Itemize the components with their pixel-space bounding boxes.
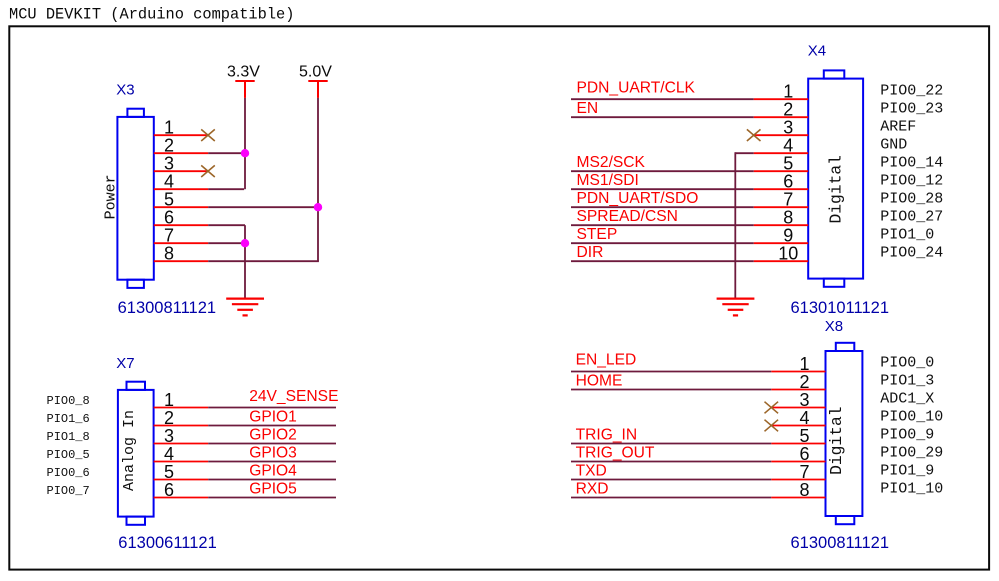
X3 pin 4 stub <box>154 188 208 190</box>
no-connect X8 pin 3 <box>765 402 779 414</box>
X8 pin 4 stub <box>771 425 825 427</box>
wire X3 pin 2 to 3.3V <box>208 152 245 154</box>
wire net 24V_SENSE <box>208 407 336 409</box>
X4 pin 4 stub <box>754 152 809 154</box>
svg-text:Digital: Digital <box>826 155 845 223</box>
svg-text:7: 7 <box>799 462 809 482</box>
X4 pin 3 stub <box>754 134 809 136</box>
svg-text:PIO0_23: PIO0_23 <box>880 100 943 117</box>
svg-text:PIO1_9: PIO1_9 <box>880 463 934 480</box>
svg-text:GPIO3: GPIO3 <box>249 445 297 462</box>
svg-text:PIO0_8: PIO0_8 <box>47 394 90 408</box>
svg-text:61301011121: 61301011121 <box>791 299 890 317</box>
X8 pin 5 stub <box>771 443 825 445</box>
wire net DIR <box>571 260 754 262</box>
wire net STEP <box>571 242 754 244</box>
wire net GPIO5 <box>208 497 336 499</box>
svg-text:4: 4 <box>799 408 809 428</box>
svg-text:3: 3 <box>783 118 793 138</box>
svg-text:3: 3 <box>799 390 809 410</box>
svg-text:PDN_UART/CLK: PDN_UART/CLK <box>577 79 696 96</box>
svg-text:PIO0_29: PIO0_29 <box>880 445 943 462</box>
svg-text:PIO0_12: PIO0_12 <box>880 172 943 189</box>
X3 pin 1 stub <box>154 134 208 136</box>
svg-text:PIO1_10: PIO1_10 <box>880 481 943 498</box>
svg-text:PIO0_5: PIO0_5 <box>47 448 90 462</box>
X4 pin 2 stub <box>754 116 809 118</box>
svg-text:1: 1 <box>783 82 793 102</box>
wire GND vertical left <box>244 225 246 297</box>
svg-text:GPIO2: GPIO2 <box>249 427 297 444</box>
wire net MS1/SDI <box>571 188 754 190</box>
power flag 3.3V <box>235 81 254 98</box>
X8 pin 6 stub <box>771 461 825 463</box>
svg-text:MS2/SCK: MS2/SCK <box>577 154 646 171</box>
wire net GPIO2 <box>208 443 336 445</box>
X3 pin 7 stub <box>154 242 208 244</box>
svg-text:PIO0_0: PIO0_0 <box>880 355 934 372</box>
svg-text:6: 6 <box>799 444 809 464</box>
svg-text:5: 5 <box>164 190 174 210</box>
svg-text:1: 1 <box>164 390 174 410</box>
svg-text:TRIG_IN: TRIG_IN <box>576 427 638 444</box>
svg-text:5.0V: 5.0V <box>299 64 332 81</box>
svg-text:2: 2 <box>799 372 809 392</box>
svg-text:10: 10 <box>778 244 798 264</box>
svg-text:3: 3 <box>164 154 174 174</box>
svg-text:3: 3 <box>164 426 174 446</box>
svg-text:2: 2 <box>164 408 174 428</box>
svg-text:7: 7 <box>164 226 174 246</box>
svg-text:HOME: HOME <box>576 373 623 390</box>
svg-text:PIO0_6: PIO0_6 <box>47 466 90 480</box>
ground symbol left <box>226 299 264 316</box>
svg-text:Digital: Digital <box>827 406 846 474</box>
no-connect X3 pin 1 <box>201 129 215 141</box>
svg-text:GPIO4: GPIO4 <box>249 463 297 480</box>
svg-text:PDN_UART/SDO: PDN_UART/SDO <box>577 190 699 207</box>
svg-text:6: 6 <box>164 480 174 500</box>
svg-text:61300811121: 61300811121 <box>118 299 217 317</box>
X7 pin 6 stub <box>154 497 209 499</box>
no-connect X4 pin 3 <box>747 129 761 141</box>
wire 5.0V to X3 pin 8 <box>208 260 319 262</box>
svg-text:8: 8 <box>799 480 809 500</box>
X4 pin 9 stub <box>754 242 809 244</box>
svg-text:61300811121: 61300811121 <box>791 534 890 552</box>
X4 pin 8 stub <box>754 224 809 226</box>
svg-text:TXD: TXD <box>576 463 607 480</box>
svg-text:STEP: STEP <box>577 226 618 243</box>
svg-text:PIO0_22: PIO0_22 <box>880 82 943 99</box>
wire net MS2/SCK <box>571 170 754 172</box>
X4 pin 6 stub <box>754 188 809 190</box>
svg-text:X3: X3 <box>116 82 134 99</box>
svg-text:PIO0_7: PIO0_7 <box>47 484 90 498</box>
no-connect X8 pin 4 <box>765 420 779 432</box>
svg-text:5: 5 <box>783 154 793 174</box>
svg-text:8: 8 <box>164 244 174 264</box>
svg-text:PIO1_0: PIO1_0 <box>880 226 934 243</box>
wire net GPIO1 <box>208 425 336 427</box>
wire net EN_LED <box>571 371 771 373</box>
svg-text:1: 1 <box>799 354 809 374</box>
svg-text:MCU DEVKIT (Arduino compatible: MCU DEVKIT (Arduino compatible) <box>9 6 294 24</box>
svg-text:GPIO1: GPIO1 <box>249 409 297 426</box>
svg-text:3.3V: 3.3V <box>227 64 260 81</box>
X4 pin 10 stub <box>754 260 809 262</box>
svg-text:DIR: DIR <box>577 244 604 261</box>
svg-text:4: 4 <box>783 136 793 156</box>
X3 pin 2 stub <box>154 152 208 154</box>
wire net RXD <box>571 497 771 499</box>
svg-text:PIO0_28: PIO0_28 <box>880 190 943 207</box>
wire X4 pin 4 to GND <box>735 152 753 154</box>
X7 pin 1 stub <box>154 407 209 409</box>
svg-text:PIO0_9: PIO0_9 <box>880 427 934 444</box>
svg-text:AREF: AREF <box>880 118 916 135</box>
X8 pin 8 stub <box>771 497 825 499</box>
wire X3 pin 5 to 5.0V <box>208 206 318 208</box>
svg-text:SPREAD/CSN: SPREAD/CSN <box>577 208 678 225</box>
wire GND vertical right <box>734 152 736 297</box>
svg-text:PIO0_24: PIO0_24 <box>880 244 943 261</box>
connector X3 body <box>117 109 153 288</box>
svg-text:PIO0_27: PIO0_27 <box>880 208 943 225</box>
svg-text:PIO1_8: PIO1_8 <box>47 430 90 444</box>
connector X7 body <box>118 382 154 525</box>
svg-text:PIO1_6: PIO1_6 <box>47 412 90 426</box>
wire net TXD <box>571 479 771 481</box>
wire net GPIO3 <box>208 461 336 463</box>
wire net EN <box>571 116 754 118</box>
X7 pin 4 stub <box>154 461 209 463</box>
connector X4 body <box>808 70 863 286</box>
X3 pin 8 stub <box>154 260 208 262</box>
wire net PDN_UART/CLK <box>571 98 754 100</box>
no-connect X3 pin 3 <box>201 165 215 177</box>
svg-text:Analog In: Analog In <box>121 410 138 491</box>
power flag 5.0V <box>308 81 327 98</box>
svg-text:6: 6 <box>164 208 174 228</box>
svg-text:TRIG_OUT: TRIG_OUT <box>576 445 655 462</box>
svg-text:Power: Power <box>103 174 120 219</box>
svg-text:2: 2 <box>783 100 793 120</box>
svg-text:EN: EN <box>577 100 599 117</box>
wire net GPIO4 <box>208 479 336 481</box>
ground symbol right <box>717 299 755 316</box>
connector X8 body <box>826 343 863 524</box>
svg-text:GPIO5: GPIO5 <box>249 481 297 498</box>
wire 5.0V vertical <box>317 98 319 261</box>
svg-text:5: 5 <box>164 462 174 482</box>
svg-text:PIO0_14: PIO0_14 <box>880 154 943 171</box>
wire net TRIG_IN <box>571 443 771 445</box>
svg-text:X7: X7 <box>116 355 134 372</box>
X3 pin 3 stub <box>154 170 208 172</box>
X8 pin 1 stub <box>771 371 825 373</box>
svg-text:4: 4 <box>164 172 174 192</box>
svg-text:PIO0_10: PIO0_10 <box>880 409 943 426</box>
svg-text:X4: X4 <box>808 43 826 60</box>
svg-text:RXD: RXD <box>576 481 609 498</box>
X7 pin 2 stub <box>154 425 209 427</box>
X3 pin 5 stub <box>154 206 208 208</box>
X4 pin 5 stub <box>754 170 809 172</box>
X4 pin 7 stub <box>754 206 809 208</box>
wire 3.3V vertical <box>244 98 246 189</box>
svg-text:24V_SENSE: 24V_SENSE <box>249 388 338 405</box>
svg-text:MS1/SDI: MS1/SDI <box>577 172 639 189</box>
junction GND at pin 7 row <box>241 239 249 247</box>
junction 3.3V at pin 2 row <box>241 149 249 157</box>
X7 pin 5 stub <box>154 479 209 481</box>
wire net SPREAD/CSN <box>571 224 754 226</box>
svg-text:61300611121: 61300611121 <box>118 534 217 552</box>
svg-text:2: 2 <box>164 136 174 156</box>
svg-text:PIO1_3: PIO1_3 <box>880 373 934 390</box>
svg-text:5: 5 <box>799 426 809 446</box>
wire 3.3V to X3 pin 4 <box>208 188 244 190</box>
wire net TRIG_OUT <box>571 461 771 463</box>
svg-text:9: 9 <box>783 226 793 246</box>
svg-text:1: 1 <box>164 118 174 138</box>
X8 pin 2 stub <box>771 389 825 391</box>
wire net PDN_UART/SDO <box>571 206 754 208</box>
svg-text:ADC1_X: ADC1_X <box>880 391 934 408</box>
svg-text:X8: X8 <box>825 318 843 335</box>
wire X3 pin 6 to GND <box>208 224 245 226</box>
X4 pin 1 stub <box>754 98 809 100</box>
svg-text:8: 8 <box>783 208 793 228</box>
svg-text:EN_LED: EN_LED <box>576 352 637 369</box>
X8 pin 7 stub <box>771 479 825 481</box>
wire net HOME <box>571 389 771 391</box>
svg-text:4: 4 <box>164 444 174 464</box>
svg-text:7: 7 <box>783 190 793 210</box>
X3 pin 6 stub <box>154 224 208 226</box>
wire X3 pin 7 to GND <box>208 242 245 244</box>
X7 pin 3 stub <box>154 443 209 445</box>
junction 5.0V at pin 5 row <box>314 203 322 211</box>
svg-text:6: 6 <box>783 172 793 192</box>
svg-text:GND: GND <box>880 136 907 153</box>
X8 pin 3 stub <box>771 407 825 409</box>
